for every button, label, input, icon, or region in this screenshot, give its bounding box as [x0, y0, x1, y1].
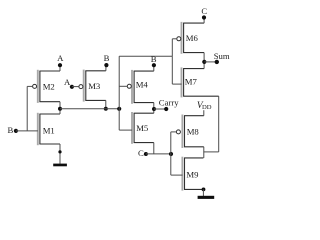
svg-text:B: B: [8, 125, 14, 135]
svg-text:M1: M1: [43, 125, 55, 135]
svg-text:M5: M5: [136, 123, 148, 133]
svg-text:M8: M8: [187, 127, 200, 137]
svg-text:B: B: [151, 54, 157, 64]
svg-text:C: C: [201, 6, 207, 16]
svg-text:DD: DD: [202, 104, 212, 111]
svg-text:M9: M9: [186, 169, 198, 179]
svg-text:M3: M3: [88, 81, 100, 91]
svg-text:A: A: [64, 77, 71, 87]
svg-text:Sum: Sum: [214, 51, 230, 61]
svg-text:C: C: [138, 148, 144, 158]
svg-text:M6: M6: [186, 33, 199, 43]
svg-text:M7: M7: [185, 77, 198, 87]
svg-text:M4: M4: [136, 80, 149, 90]
svg-text:A: A: [57, 53, 64, 63]
svg-text:M2: M2: [43, 82, 55, 92]
svg-text:B: B: [104, 53, 110, 63]
svg-text:Carry: Carry: [159, 98, 179, 108]
